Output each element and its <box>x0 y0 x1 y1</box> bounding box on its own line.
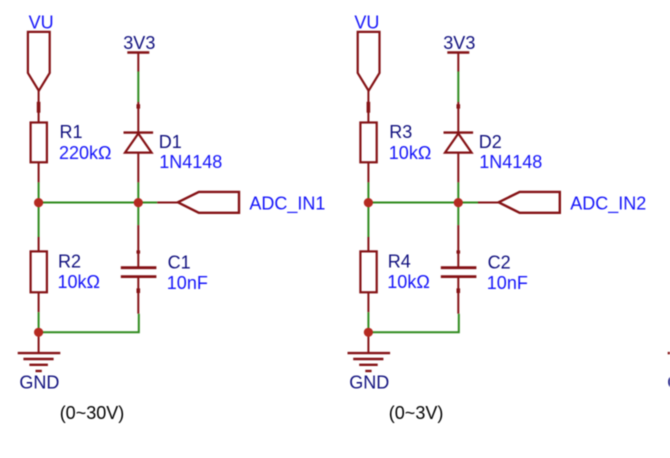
svg-text:VU: VU <box>354 13 379 33</box>
svg-text:VU: VU <box>29 13 54 33</box>
svg-text:3V3: 3V3 <box>123 33 155 53</box>
svg-text:(0~3V): (0~3V) <box>389 403 444 423</box>
svg-text:R1: R1 <box>60 122 83 142</box>
svg-text:R4: R4 <box>388 251 411 271</box>
svg-text:10kΩ: 10kΩ <box>389 143 431 163</box>
svg-text:10kΩ: 10kΩ <box>58 272 100 292</box>
svg-text:(0~30V): (0~30V) <box>60 403 125 423</box>
svg-text:D2: D2 <box>479 132 502 152</box>
svg-text:GND: GND <box>19 373 59 393</box>
svg-text:1N4148: 1N4148 <box>159 152 222 172</box>
svg-text:R2: R2 <box>58 251 81 271</box>
svg-text:10nF: 10nF <box>487 273 528 293</box>
svg-text:C2: C2 <box>488 252 511 272</box>
svg-text:ADC_IN2: ADC_IN2 <box>570 194 646 215</box>
svg-text:10nF: 10nF <box>167 273 208 293</box>
svg-text:3V3: 3V3 <box>443 33 475 53</box>
svg-text:D1: D1 <box>159 132 182 152</box>
svg-text:1N4148: 1N4148 <box>479 152 542 172</box>
svg-text:GND: GND <box>349 373 389 393</box>
svg-text:220kΩ: 220kΩ <box>59 143 112 163</box>
svg-text:ADC_IN1: ADC_IN1 <box>249 194 325 215</box>
svg-text:C1: C1 <box>168 252 191 272</box>
svg-text:10kΩ: 10kΩ <box>387 272 429 292</box>
svg-text:R3: R3 <box>389 122 412 142</box>
